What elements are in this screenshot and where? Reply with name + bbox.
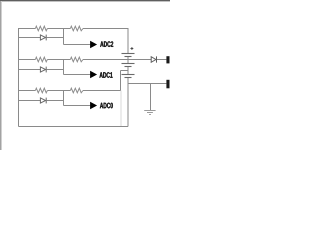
ground symbol [144,110,155,112]
wire: row3 mid segment [47,90,70,92]
node ADC1 arrow [90,71,97,78]
wire: row2 ADC lead [64,74,91,76]
diode D4 [151,57,156,63]
wire: left input bus [18,28,20,127]
pin VCC black bar [166,56,169,63]
wire: stem C1 to row2 [127,57,129,60]
wire: row2 diode branch right [47,69,64,71]
wire: row3 diode branch left [19,100,41,102]
window top border [0,0,170,2]
wire: row2 mid segment [47,59,70,61]
capacitor C1 plus sign [131,48,134,50]
node ADC2 label [100,41,113,47]
wire: ground stub vertical [150,84,152,111]
wire: row3 input segment [19,90,36,92]
wire: stem C3 to bottom bus [127,78,129,127]
capacitor C2 bottom plate [125,66,132,68]
wire: row1 diode branch left [19,37,41,39]
node ADC0 label [100,103,113,109]
capacitor C1 top plate [122,53,135,55]
wire: row2 junction vertical [63,60,65,75]
node ADC0 arrow [90,102,97,109]
wire: row1 diode branch right [47,37,64,39]
resistor R3a [35,88,47,93]
wire: row1 ADC lead [64,44,91,46]
resistor R2b [70,57,83,62]
resistor R3b [70,88,83,93]
wire: row1 mid segment [47,28,70,30]
node ADC2 arrow [90,41,97,48]
window left border [0,1,2,150]
wire: right stem top segment [127,28,129,53]
capacitor C3 top plate [122,74,135,76]
resistor R1b [70,26,83,31]
wire: row3 junction vertical [63,91,65,106]
wire: cap tap horizontal [121,70,129,72]
wire: faint return below row3 [120,91,122,127]
capacitor C3 bottom plate [125,77,132,79]
wire: row1 junction vertical [63,29,65,45]
resistor R2a [35,57,47,62]
wire: row1 output segment [83,28,128,30]
wire: row3 ADC lead [64,105,91,107]
wire: row3 output segment [83,90,121,92]
wire: stem row2 to C2 [127,60,129,64]
capacitor C2 top plate [122,63,135,65]
wire: row2 input segment [19,59,36,61]
diode D2 [40,67,45,72]
wire: row2 diode output to VCC pin [157,59,167,61]
pin GND black bar [166,80,169,89]
wire: row3 diode branch right [47,100,64,102]
wire: bottom bus [19,126,129,128]
wire: ground net horizontal [128,83,166,85]
wire: row2 output segment [83,59,151,61]
wire: stem tap to C3 [127,71,129,75]
node ADC1 label [100,72,113,78]
wire: stem C2 to tap [127,67,129,71]
resistor R1a [35,26,47,31]
wire: tap vertical to row3 [120,71,122,91]
wire: row1 input segment [19,28,36,30]
diode D1 [40,35,45,40]
wire: row2 diode branch left [19,69,41,71]
diode D3 [40,98,45,103]
capacitor C1 bottom plate [125,56,132,58]
